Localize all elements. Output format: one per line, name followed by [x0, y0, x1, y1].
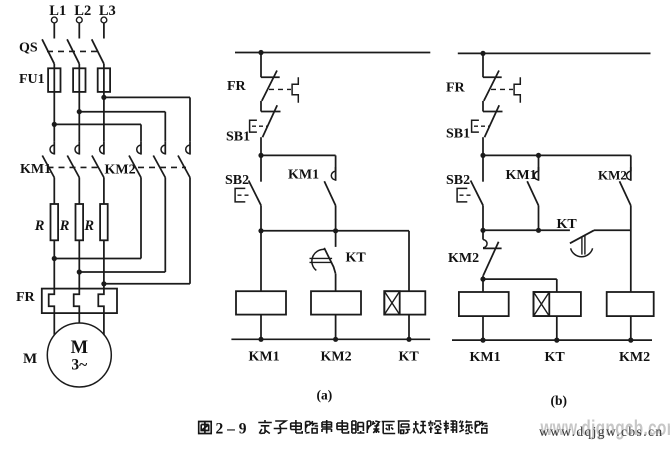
junction below R x103: [101, 281, 106, 286]
contact FR (b) blade: [484, 71, 499, 101]
wire KM1 aux branch drop (a): [335, 155, 337, 171]
wire SB2 (a) stub: [260, 155, 262, 181]
caption 图 2-9 prefix glyph: [199, 422, 212, 434]
switch QS pole1 blade: [42, 39, 54, 64]
wire KM1 aux (b) down: [538, 206, 540, 231]
svg-text:FR: FR: [446, 81, 466, 96]
wire stub KM1 pole2: [78, 141, 80, 154]
junction node2 mid (a): [333, 228, 338, 233]
contact KM1 main pole1 blade: [42, 156, 54, 178]
contact KM1 aux (a) blade: [324, 181, 335, 205]
wire KM1 coil (a) drop: [260, 231, 262, 291]
contact KM2 main pole1 blade: [129, 156, 141, 178]
junction bottom KM1 (b): [480, 338, 485, 343]
fuse FU1 pole3: [98, 68, 110, 92]
wire KM2 branch bottom x141: [140, 178, 142, 259]
wire (a) rail drop: [260, 53, 262, 78]
coil KT (b) crossed box: [534, 292, 550, 316]
wire (b) SB1 down: [482, 137, 484, 155]
wire KM2 branch top x190: [189, 97, 191, 141]
wire L1 to QS pole1: [53, 23, 55, 38]
resistor R1: [51, 204, 59, 240]
linkage SB2 (a) dashed: [238, 194, 252, 196]
wire R3 to FR: [103, 240, 105, 288]
contact KM2 main pole2 blade: [153, 156, 165, 178]
wire KM2 branch bottom x190: [189, 178, 191, 284]
wire bypass y258: [54, 258, 141, 260]
wire SB2 (b) stub: [482, 155, 484, 181]
svg-text:SB2: SB2: [446, 173, 470, 188]
contact SB1 (a) fixed bar: [261, 111, 281, 113]
coil KM2 (a): [311, 291, 361, 314]
wire KM2 NC (b) stub: [482, 230, 484, 239]
contact KM2 main pole1 fixed arc: [137, 145, 141, 154]
contact KM2 aux (b) blade: [620, 181, 631, 205]
junction rail (a): [258, 50, 263, 55]
svg-text:R: R: [59, 218, 70, 234]
wire KM2 NC (b) down: [482, 275, 484, 292]
contact SB1 (b) fixed bar: [483, 111, 503, 113]
svg-text:L1: L1: [49, 3, 66, 19]
contact FR (b) fixed bar: [483, 76, 502, 78]
contact SB2 (a) blade: [249, 181, 261, 206]
junction node1 (a): [258, 153, 263, 158]
wire FR to motor ph1: [53, 313, 55, 335]
wire fuse pole1 down: [53, 68, 55, 141]
fuse FU1 pole2: [73, 68, 85, 92]
svg-text:R: R: [83, 218, 94, 234]
contact KM1 main pole3 fixed arc: [100, 145, 104, 154]
junction bottom KM2 (a): [333, 337, 338, 342]
wire stub KM2 pole2: [164, 141, 166, 154]
wire rail (a): [235, 52, 430, 54]
resistor R2: [76, 204, 84, 240]
wire node2 (b): [483, 229, 570, 231]
svg-text:KT: KT: [557, 217, 578, 232]
svg-text:KM2: KM2: [619, 350, 650, 365]
coil KT (a) crossed box: [384, 291, 399, 314]
wire node2 (a): [261, 230, 409, 232]
wire coil KM1 (a) bottom: [260, 315, 262, 340]
relay FR (b) actuator: [514, 77, 520, 102]
caption char 9: [382, 422, 396, 434]
junction below R x79: [77, 269, 82, 274]
contact FR (a) fixed bar: [261, 76, 280, 78]
contact KM1 main pole1 fixed arc: [50, 145, 54, 154]
junction fuse-out x79: [77, 109, 82, 114]
linkage SB2 (b) dashed: [460, 194, 474, 196]
caption char 11: [413, 421, 426, 434]
wire KM1 pole2 to R: [78, 178, 80, 205]
svg-text:www.dqjgw.cbs.cn: www.dqjgw.cbs.cn: [539, 424, 664, 439]
contact SB1 (b) blade: [485, 105, 500, 137]
fuse FU1 pole1: [48, 68, 60, 92]
relay FR heater element pole3: [98, 289, 104, 314]
svg-text:KM1: KM1: [470, 350, 501, 365]
svg-text:(a): (a): [317, 388, 333, 403]
wire QS pole1 to fuse: [53, 64, 55, 69]
junction bottom KM2 (b): [628, 338, 633, 343]
button SB2 (a) head: [235, 188, 245, 202]
motor M: [47, 323, 111, 387]
caption char 7: [352, 421, 365, 433]
svg-text:KM2: KM2: [321, 350, 352, 365]
wire (a) FR to SB1: [260, 101, 262, 112]
button SB1 (b) head: [472, 120, 479, 132]
contact SB1 (a) blade: [263, 105, 278, 137]
junction rail (b): [480, 51, 485, 56]
wire stub KM2 aux (b): [630, 167, 632, 181]
caption char 10: [398, 421, 411, 434]
coil KT (b): [534, 292, 581, 316]
junction node2 left (a): [258, 228, 263, 233]
contact FR (a) blade: [262, 71, 277, 101]
contact KM1 main pole3 blade: [92, 156, 104, 178]
svg-text:KM2: KM2: [105, 163, 136, 178]
wire KM1 pole3 to R: [103, 178, 105, 205]
linkage KM1: [48, 166, 103, 168]
wire KM2 aux (b) down: [630, 206, 632, 293]
wire bypass y283: [104, 283, 190, 285]
svg-text:KT: KT: [399, 350, 420, 365]
svg-text:SB1: SB1: [226, 130, 250, 145]
wire SB2 (b) down: [482, 205, 484, 230]
svg-text:L3: L3: [99, 3, 116, 19]
wire fuse pole2 down: [78, 68, 80, 141]
svg-text:KM1: KM1: [288, 168, 319, 183]
wire (b) rail drop: [482, 53, 484, 78]
wire bypass y272: [79, 271, 165, 273]
svg-text:SB2: SB2: [225, 173, 249, 188]
svg-text:KT: KT: [346, 251, 367, 266]
svg-text:KM1: KM1: [506, 168, 537, 183]
wire (a) SB1 down: [260, 137, 262, 155]
junction node2 left (b): [480, 228, 485, 233]
junction node1-KM1 (b): [536, 153, 541, 158]
wire stub KM1 aux (b): [538, 167, 540, 181]
switch QS pole2 blade: [67, 39, 79, 64]
wire feed to KM2 y124: [54, 123, 141, 125]
coil KM2 (b): [607, 292, 654, 316]
caption char 1: [258, 420, 272, 434]
wire feed to KM2 y111: [79, 111, 165, 113]
wire KM2 branch top x165: [164, 112, 166, 142]
button SB1 (a) head: [250, 120, 257, 132]
wire node1 (b): [483, 154, 631, 156]
wire node1 (a) to KM1 branch: [261, 154, 336, 156]
wire KT contact stub (a): [335, 231, 337, 247]
caption char 13: [444, 421, 457, 434]
contact KT delayed (a) arc: [312, 249, 325, 270]
terminal L3: [101, 17, 107, 23]
terminal L2: [76, 17, 82, 23]
terminal L1: [51, 17, 57, 23]
caption char 5: [322, 420, 332, 434]
wire R1 to FR: [53, 240, 55, 288]
caption char 12: [428, 421, 442, 434]
junction KT coil branch (b): [480, 277, 485, 282]
coil KT (b) cross: [534, 292, 550, 316]
svg-text:(b): (b): [551, 393, 568, 408]
svg-text:QS: QS: [19, 41, 38, 56]
contact KM1 aux (a) fixed arc: [331, 171, 335, 180]
wire KM2 aux branch drop (b): [630, 155, 632, 171]
relay FR heater element pole2: [74, 289, 80, 314]
contact KM2 NC (b) arc: [483, 240, 487, 248]
contact KT (b) blade: [570, 230, 594, 243]
contact KT (a) chord2: [310, 261, 333, 263]
svg-text:M: M: [23, 351, 37, 367]
wire QS pole2 to fuse: [78, 64, 80, 69]
wire to KT coil (b): [483, 278, 557, 280]
contact KT (b) chord1: [581, 237, 583, 255]
svg-text:FU1: FU1: [19, 72, 45, 87]
svg-text:KM1: KM1: [20, 162, 51, 177]
contact KM2 aux (b) fixed arc: [627, 171, 631, 180]
wire stub KM1 pole3: [103, 141, 105, 154]
contact KT (b) chord2: [584, 235, 586, 254]
wire KM2 branch top x141: [140, 124, 142, 141]
coil KT (a) cross: [384, 291, 399, 314]
linkage FR (b) dashed: [491, 88, 513, 90]
relay FR heater box: [42, 289, 117, 314]
caption char 14: [459, 421, 472, 434]
contact KT delayed (b) arc: [571, 248, 593, 256]
wire stub KM2 pole3: [189, 141, 191, 154]
switch QS pole3 blade: [92, 39, 104, 64]
wire stub KM1 aux (a): [335, 167, 337, 181]
resistor R3: [100, 204, 108, 240]
wire KM1 pole1 to R: [53, 178, 55, 205]
relay FR (a) actuator: [292, 77, 298, 102]
junction bottom KT (b): [554, 338, 559, 343]
coil KM1 (b): [459, 292, 509, 316]
wire KT contact (a) down: [335, 274, 337, 291]
svg-text:FR: FR: [16, 290, 36, 305]
wire L3 to QS pole3: [103, 23, 105, 38]
wire KM1 aux (a) down: [335, 206, 337, 231]
contact KM2 main pole3 blade: [178, 156, 190, 178]
junction bottom KT (a): [406, 337, 411, 342]
junction node2 mid (b): [536, 228, 541, 233]
contact KM1 aux (b) blade: [527, 181, 538, 205]
wire R2 to FR: [78, 240, 80, 288]
wire bottom rail (a): [231, 338, 430, 340]
wire coil KT (a) bottom: [408, 315, 410, 340]
relay FR heater element pole1: [49, 289, 55, 314]
wire FR to motor ph2: [78, 313, 80, 323]
svg-text:KM2: KM2: [598, 168, 627, 183]
contact KM2 main pole3 fixed arc: [186, 145, 190, 154]
svg-text:KM1: KM1: [249, 350, 280, 365]
wire coil KT (b) bottom: [556, 316, 558, 340]
wire L2 to QS pole2: [78, 23, 80, 38]
coil KT (a): [384, 291, 425, 314]
contact KM1 main pole2 fixed arc: [75, 145, 79, 154]
wire KT (b) to KM2 branch: [594, 229, 631, 231]
junction fuse-out x103: [101, 95, 106, 100]
wire FR to motor ph3: [103, 313, 105, 335]
contact KM2 NC (b) blade: [483, 242, 498, 276]
button SB2 (b) head: [457, 188, 467, 202]
wire SB2 (a) down: [260, 205, 262, 231]
contact SB2 (b) blade: [471, 181, 483, 206]
caption char 3: [291, 420, 303, 433]
wire coil KM1 (b) bottom: [482, 316, 484, 340]
junction below R x54: [52, 256, 57, 261]
caption char 15: [475, 421, 488, 433]
wire fuse pole3 down: [103, 68, 105, 141]
svg-text:2 – 9: 2 – 9: [216, 421, 247, 438]
junction node1 (b): [480, 153, 485, 158]
wire QS pole3 to fuse: [103, 64, 105, 69]
svg-text:FR: FR: [227, 79, 247, 94]
contact KT delayed (a) blade: [324, 248, 335, 274]
svg-text:3~: 3~: [71, 357, 87, 374]
svg-text:L2: L2: [74, 3, 91, 19]
contact KT (a) chord1: [310, 257, 333, 259]
wire coil KM2 (a) bottom: [335, 315, 337, 340]
wire (b) FR to SB1: [482, 101, 484, 112]
wire rail (b): [458, 52, 651, 54]
wire KM2 branch bottom x165: [164, 178, 166, 273]
svg-text:KM2: KM2: [448, 251, 479, 266]
coil KM1 (a): [236, 291, 286, 314]
caption char 4: [306, 421, 319, 433]
junction fuse-out x54: [52, 122, 57, 127]
linkage KM2: [138, 166, 186, 168]
caption char 2: [274, 421, 288, 434]
wire stub KM2 pole1: [140, 141, 142, 154]
wire coil KM2 (b) bottom: [630, 316, 632, 340]
contact KM1 aux (b) fixed arc: [534, 171, 538, 180]
wire KT coil drop (b): [556, 279, 558, 292]
caption char 8: [367, 421, 379, 433]
svg-text:KT: KT: [545, 350, 566, 365]
wire KM1 aux branch drop (b): [538, 155, 540, 171]
svg-text:R: R: [34, 218, 45, 234]
contact KM2 NC (b) fixed bar: [483, 247, 502, 249]
linkage SB1 (a) dashed: [252, 125, 268, 127]
contact KM1 main pole2 blade: [67, 156, 79, 178]
junction bottom KM1 (a): [258, 337, 263, 342]
wire feed to KM2 y97: [104, 96, 190, 98]
svg-text:SB1: SB1: [446, 127, 470, 142]
wire KT branch drop (a): [408, 231, 410, 291]
caption char 6: [337, 420, 349, 433]
contact KM2 main pole2 fixed arc: [161, 145, 165, 154]
linkage SB1 (b) dashed: [474, 125, 490, 127]
wire bottom rail (b): [452, 339, 652, 341]
wire stub KM1 pole1: [53, 141, 55, 154]
linkage FR (a) dashed: [269, 88, 291, 90]
svg-text:M: M: [71, 338, 88, 358]
linkage QS: [47, 50, 97, 52]
